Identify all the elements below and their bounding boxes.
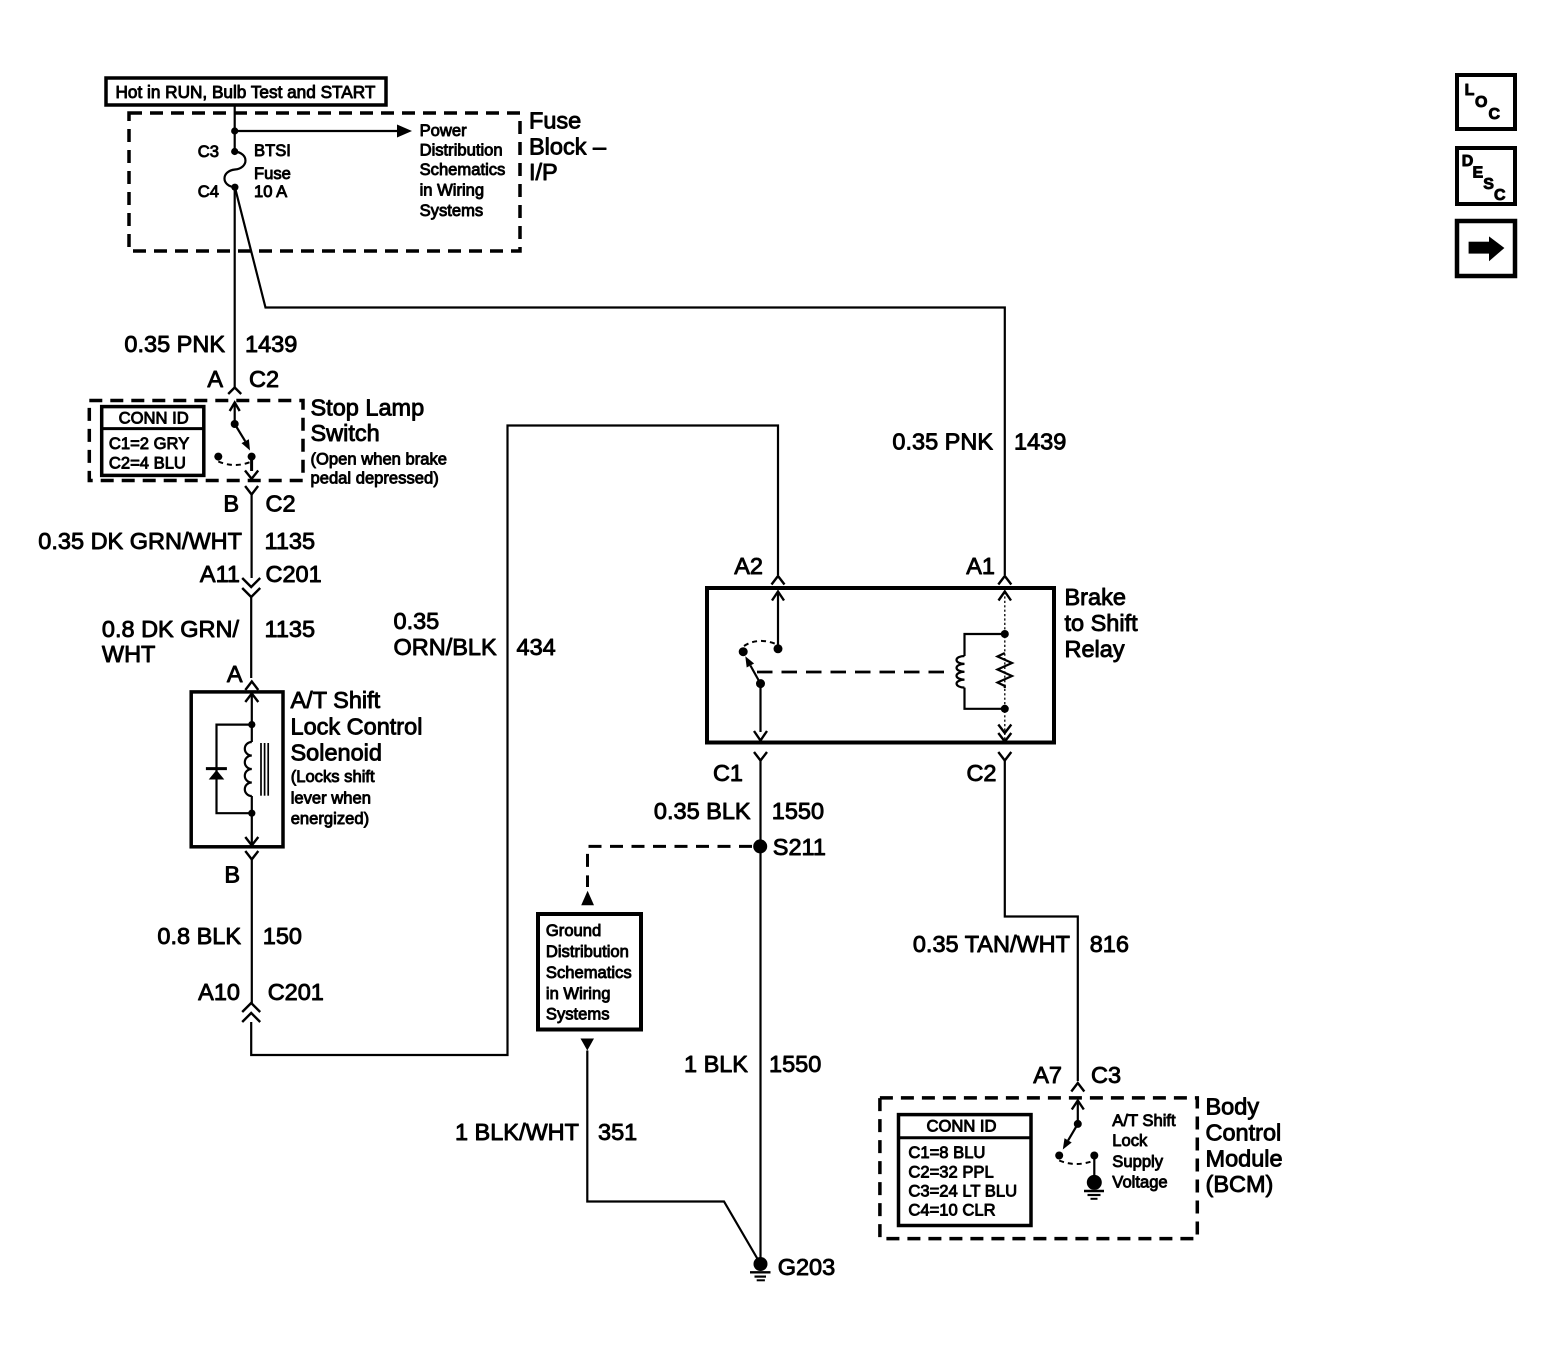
svg-text:A1: A1 [966,553,995,579]
svg-text:B: B [223,491,239,517]
svg-text:1550: 1550 [772,798,824,824]
svg-text:L: L [1465,82,1475,99]
svg-text:C4: C4 [198,182,219,201]
svg-text:1135: 1135 [265,616,316,642]
svg-text:C3=24 LT BLU: C3=24 LT BLU [908,1182,1017,1201]
svg-text:Supply: Supply [1112,1152,1163,1171]
svg-text:to Shift: to Shift [1065,610,1139,636]
svg-text:(Locks shift: (Locks shift [291,767,375,786]
svg-text:A: A [207,366,223,392]
svg-text:0.35: 0.35 [394,608,440,634]
svg-text:Fuse: Fuse [254,164,291,183]
svg-text:0.35 DK GRN/WHT: 0.35 DK GRN/WHT [38,528,242,554]
svg-text:lever when: lever when [291,789,371,808]
svg-text:(Open when brake: (Open when brake [311,450,448,469]
svg-text:Distribution: Distribution [546,942,629,961]
svg-text:0.35 PNK: 0.35 PNK [124,331,225,357]
svg-text:Schematics: Schematics [546,963,632,982]
svg-text:Block –: Block – [529,134,607,160]
svg-text:CONN ID: CONN ID [119,409,189,428]
svg-text:C201: C201 [266,561,322,587]
svg-text:C4=10 CLR: C4=10 CLR [908,1201,995,1220]
svg-text:1550: 1550 [769,1051,821,1077]
svg-text:C1=8 BLU: C1=8 BLU [908,1143,985,1162]
svg-text:Fuse: Fuse [529,108,581,134]
svg-text:C1: C1 [713,760,743,786]
svg-text:1 BLK/WHT: 1 BLK/WHT [455,1119,579,1145]
svg-text:Ground: Ground [546,921,601,940]
svg-text:ORN/BLK: ORN/BLK [394,634,497,660]
svg-text:Systems: Systems [546,1005,610,1024]
svg-text:C3: C3 [1091,1062,1121,1088]
svg-text:A11: A11 [200,561,240,587]
svg-text:BTSI: BTSI [254,141,291,160]
svg-text:A2: A2 [734,553,763,579]
svg-text:Control: Control [1206,1120,1282,1146]
svg-text:Body: Body [1206,1094,1260,1120]
svg-text:0.8 BLK: 0.8 BLK [157,923,241,949]
svg-text:0.8 DK GRN/: 0.8 DK GRN/ [102,616,240,642]
svg-text:in Wiring: in Wiring [420,181,485,200]
svg-text:pedal depressed): pedal depressed) [311,469,439,488]
svg-text:1439: 1439 [245,331,297,357]
svg-text:Module: Module [1206,1146,1283,1172]
svg-text:(BCM): (BCM) [1206,1171,1274,1197]
svg-text:S211: S211 [773,834,826,860]
svg-text:C201: C201 [268,979,324,1005]
svg-text:S: S [1483,176,1494,193]
svg-text:A10: A10 [198,979,240,1005]
svg-text:A: A [227,661,243,687]
svg-text:in Wiring: in Wiring [546,984,611,1003]
svg-text:Switch: Switch [311,420,380,446]
svg-text:I/P: I/P [529,159,558,185]
svg-text:C2=4 BLU: C2=4 BLU [109,454,186,473]
svg-text:1135: 1135 [265,528,316,554]
svg-text:C2: C2 [249,366,279,392]
svg-text:150: 150 [263,923,302,949]
svg-text:B: B [224,862,240,888]
svg-text:Relay: Relay [1065,636,1125,662]
svg-text:CONN ID: CONN ID [926,1117,996,1136]
svg-text:Lock Control: Lock Control [291,714,423,740]
svg-text:Solenoid: Solenoid [291,740,382,766]
svg-text:816: 816 [1090,931,1129,957]
svg-text:Power: Power [420,121,468,140]
svg-text:C1=2 GRY: C1=2 GRY [109,434,189,453]
svg-text:O: O [1475,94,1487,111]
svg-text:WHT: WHT [102,641,156,667]
svg-text:Stop Lamp: Stop Lamp [311,395,425,421]
svg-text:C: C [1489,106,1501,123]
svg-text:energized): energized) [291,809,369,828]
svg-text:1439: 1439 [1014,429,1066,455]
svg-text:Distribution: Distribution [420,141,503,160]
svg-text:Schematics: Schematics [420,160,506,179]
svg-text:C3: C3 [198,142,219,161]
svg-text:E: E [1473,165,1484,182]
svg-text:A7: A7 [1033,1062,1062,1088]
svg-text:C: C [1494,187,1506,204]
svg-text:A/T Shift: A/T Shift [291,687,381,713]
svg-text:C2: C2 [266,491,296,517]
svg-text:Lock: Lock [1112,1131,1148,1150]
svg-text:0.35 TAN/WHT: 0.35 TAN/WHT [913,931,1070,957]
svg-text:Systems: Systems [420,201,484,220]
svg-text:Brake: Brake [1065,584,1126,610]
svg-text:Voltage: Voltage [1112,1173,1167,1192]
svg-text:351: 351 [598,1119,637,1145]
svg-text:10 A: 10 A [254,182,288,201]
svg-text:434: 434 [517,634,556,660]
svg-text:G203: G203 [778,1254,836,1280]
svg-text:1 BLK: 1 BLK [684,1051,748,1077]
svg-text:C2=32 PPL: C2=32 PPL [908,1162,993,1181]
svg-text:0.35 PNK: 0.35 PNK [892,429,993,455]
svg-text:Hot in RUN, Bulb Test and STAR: Hot in RUN, Bulb Test and START [116,82,376,102]
svg-text:0.35 BLK: 0.35 BLK [654,798,751,824]
svg-text:A/T Shift: A/T Shift [1112,1111,1176,1130]
svg-text:C2: C2 [966,760,996,786]
